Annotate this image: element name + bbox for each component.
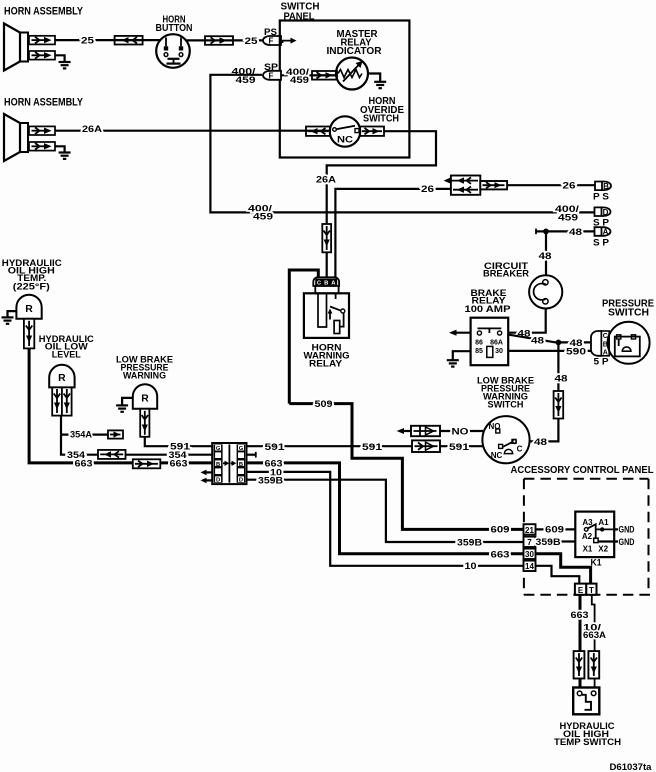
- svg-text:F: F: [269, 71, 274, 80]
- circuit breaker: [529, 275, 562, 308]
- master relay indicator lamp: [336, 58, 368, 90]
- svg-text:26A: 26A: [82, 124, 102, 135]
- svg-text:HORN ASSEMBLY: HORN ASSEMBLY: [4, 6, 84, 18]
- accessory control panel dashed border: [524, 479, 655, 595]
- svg-text:D: D: [239, 478, 243, 484]
- svg-text:B: B: [216, 462, 220, 468]
- svg-text:BREAKER: BREAKER: [483, 269, 529, 280]
- wire 25 horn1 to connector to horn button: [55, 39, 160, 41]
- connector SP A: [595, 227, 611, 236]
- svg-text:D: D: [603, 208, 609, 217]
- accessory panel pin 21: [524, 524, 536, 535]
- svg-text:A1: A1: [598, 518, 609, 527]
- wire NO with left arrow: [397, 428, 411, 434]
- svg-text:NO: NO: [452, 427, 470, 438]
- wire label 10/663A: [583, 622, 606, 640]
- horn warning relay box: [304, 293, 349, 338]
- svg-text:663: 663: [491, 549, 510, 560]
- svg-text:SWITCH: SWITCH: [608, 308, 649, 319]
- svg-text:HORN ASSEMBLY: HORN ASSEMBLY: [4, 97, 84, 109]
- ground hydraulic oil high temp: [2, 317, 14, 323]
- svg-text:590: 590: [566, 347, 586, 358]
- svg-text:ACCESSORY CONTROL PANEL: ACCESSORY CONTROL PANEL: [511, 465, 655, 476]
- horn warning relay connector C B A: [313, 277, 339, 293]
- horn assembly 1 speaker symbol: [4, 24, 28, 71]
- connector SP F: [263, 71, 281, 81]
- svg-text:R: R: [58, 373, 66, 384]
- wire label 400/459 (mid): [248, 203, 273, 222]
- connector below low brake lamp: [140, 409, 149, 437]
- svg-text:30: 30: [495, 348, 503, 355]
- horn 2 pin connector top: [29, 126, 55, 135]
- wire K1 A2 to GND: [598, 540, 618, 542]
- wire 26 horn warning relay pin A to PS B: [335, 189, 452, 278]
- svg-text:INDICATOR: INDICATOR: [327, 46, 382, 57]
- wire 48 circuit breaker to brake relay: [508, 309, 546, 333]
- svg-text:30: 30: [525, 550, 534, 559]
- svg-text:359B: 359B: [258, 476, 283, 487]
- wire label 400/459 (right): [555, 204, 579, 223]
- svg-text:591: 591: [362, 442, 383, 453]
- svg-text:609: 609: [545, 525, 564, 536]
- wire 26A horn2 to horn override switch: [55, 130, 330, 132]
- wire horn warning relay pin C left and down to 509: [289, 270, 318, 404]
- wire 591 to NC terminal: [247, 445, 500, 447]
- brake relay 100 amp box: [471, 318, 509, 366]
- svg-text:NC: NC: [491, 451, 503, 460]
- svg-text:G: G: [216, 446, 221, 452]
- relay K1 box: [575, 512, 614, 557]
- svg-text:86: 86: [475, 340, 483, 347]
- svg-text:R: R: [25, 304, 33, 315]
- wire 48 junction to pressure switch B: [558, 341, 591, 343]
- svg-text:D61037ta: D61037ta: [610, 762, 653, 772]
- svg-text:25: 25: [81, 36, 95, 47]
- wire pin 14 to E terminal: [536, 566, 580, 584]
- svg-text:F: F: [269, 37, 274, 46]
- pressure switch connector bracket C B A: [591, 331, 609, 356]
- wire 609 pin 21 to relay K1: [536, 528, 586, 530]
- svg-text:48: 48: [539, 251, 553, 262]
- connector right of horn override switch: [360, 127, 384, 136]
- hydraulic oil high temp lamp R: [16, 295, 41, 319]
- connector on 26A vertical wire: [322, 224, 331, 252]
- svg-text:GND: GND: [619, 537, 635, 548]
- wire lamp to ground (low brake): [122, 398, 133, 406]
- svg-text:459: 459: [253, 212, 273, 223]
- svg-text:C: C: [517, 444, 523, 453]
- svg-text:663A: 663A: [583, 630, 606, 641]
- svg-text:TEMP SWITCH: TEMP SWITCH: [554, 737, 621, 748]
- svg-text:X2: X2: [598, 545, 608, 554]
- low brake pressure warning lamp R: [133, 384, 157, 409]
- accessory panel pin 30: [524, 549, 536, 560]
- wire 354A branch: [61, 416, 108, 435]
- horn 2 pin connector bottom: [29, 142, 55, 151]
- wire 25 horn button to PS connector: [187, 39, 264, 41]
- svg-text:5 P: 5 P: [594, 356, 610, 367]
- svg-text:591: 591: [449, 442, 470, 453]
- svg-text:R: R: [141, 393, 149, 404]
- svg-text:359B: 359B: [536, 537, 561, 548]
- svg-text:S P: S P: [593, 237, 610, 248]
- wire brake relay 85 to ground: [453, 351, 471, 360]
- wire 48 junction down to circuit breaker: [545, 231, 547, 275]
- connector below low level lamp (double): [52, 387, 71, 415]
- svg-text:459: 459: [558, 212, 578, 223]
- svg-text:26A: 26A: [316, 175, 336, 186]
- pressure switch: [608, 322, 650, 364]
- wire 48 junction down to low brake pressure warning switch C: [518, 342, 558, 441]
- stub arrow block left row5: [201, 478, 213, 484]
- svg-text:48: 48: [555, 374, 569, 385]
- wire 663 high temp lamp to block: [29, 348, 212, 463]
- svg-text:21: 21: [525, 526, 534, 535]
- svg-text:354: 354: [67, 450, 86, 461]
- wire K1 A1 to GND: [614, 528, 618, 530]
- connector on wire 25 right: [205, 36, 233, 45]
- wire 26A horn override switch to horn warning relay pin B: [327, 131, 436, 278]
- svg-text:354A: 354A: [70, 430, 92, 441]
- accessory panel pin 7: [524, 537, 536, 548]
- horn 1 pin connector bottom: [29, 51, 55, 60]
- wire 591 low brake lamp to block: [145, 437, 212, 446]
- svg-text:609: 609: [491, 525, 510, 536]
- horn assembly 2 speaker symbol: [4, 114, 28, 161]
- connector on 663 wire: [133, 459, 161, 468]
- svg-text:NC: NC: [337, 135, 353, 146]
- terminal E box: [575, 584, 586, 595]
- inline connector block (5 rows): [212, 443, 246, 484]
- svg-text:SWITCH: SWITCH: [488, 400, 524, 411]
- ground brake relay: [447, 360, 459, 366]
- svg-text:100 AMP: 100 AMP: [465, 304, 512, 315]
- connector stub 354A: [108, 430, 123, 438]
- horn override switch NC: [330, 116, 360, 146]
- low brake pressure warning switch: [482, 416, 529, 463]
- wire 663 block to accessory panel pin 30: [247, 463, 524, 554]
- wire 663 E terminal down to temp switch: [579, 595, 582, 691]
- svg-text:K1: K1: [591, 558, 603, 569]
- ground low brake pressure warning lamp: [116, 405, 128, 411]
- svg-text:A: A: [603, 228, 609, 237]
- wire stub arrow left of brake relay: [449, 330, 471, 336]
- connector on 663 wire (bottom left): [574, 651, 585, 678]
- connector on 354 wire: [98, 450, 126, 459]
- svg-text:7: 7: [527, 538, 532, 547]
- wire 509 to accessory panel pin 21: [289, 404, 523, 530]
- connector on wire 25: [115, 36, 143, 45]
- svg-text:14: 14: [525, 562, 534, 571]
- svg-text:26: 26: [421, 184, 434, 195]
- svg-text:509: 509: [315, 399, 333, 410]
- svg-text:WARNING: WARNING: [123, 370, 166, 381]
- arrow into switch panel from PS F: [283, 38, 297, 44]
- ground master relay indicator: [374, 82, 386, 88]
- terminal T box: [586, 584, 596, 595]
- connector on 48 vertical wire: [554, 391, 564, 419]
- svg-text:X1: X1: [583, 545, 593, 554]
- connector SP D: [595, 207, 611, 216]
- svg-text:25: 25: [245, 36, 259, 47]
- wire stub horn1 bottom pin to ground: [55, 55, 65, 62]
- svg-text:SWITCH: SWITCH: [363, 113, 399, 124]
- horn button switch: [156, 34, 190, 68]
- svg-text:85: 85: [475, 348, 483, 355]
- svg-text:T: T: [589, 586, 594, 595]
- svg-text:A: A: [603, 349, 608, 356]
- svg-text:48: 48: [534, 437, 548, 448]
- svg-text:591: 591: [265, 442, 286, 453]
- svg-text:26: 26: [563, 181, 576, 192]
- svg-text:10: 10: [465, 561, 477, 572]
- svg-text:86A: 86A: [490, 340, 503, 347]
- ground horn2: [59, 153, 71, 159]
- wire 48 diagonal brake relay to junction: [508, 335, 556, 343]
- switch panel box: [280, 21, 410, 158]
- connector on 10/663A wire (bottom right): [588, 651, 599, 678]
- wire 48 stub arrow and junction to SP A: [536, 229, 595, 235]
- stub arrow block left row4: [201, 470, 213, 476]
- accessory panel pin 14: [524, 561, 536, 572]
- wire label 400/459 (switch panel): [286, 67, 309, 86]
- svg-text:P S: P S: [593, 191, 610, 202]
- svg-text:A2: A2: [582, 532, 593, 541]
- connector PS B: [595, 182, 611, 191]
- svg-text:B: B: [239, 462, 243, 468]
- horn 1 pin connector top: [29, 36, 55, 45]
- svg-text:(225°F): (225°F): [13, 282, 50, 293]
- wire 354 low level lamp to block: [61, 435, 212, 455]
- svg-text:LEVEL: LEVEL: [52, 349, 81, 360]
- svg-text:48: 48: [569, 227, 583, 238]
- svg-text:459: 459: [236, 75, 256, 86]
- connector on NO wire: [411, 426, 440, 436]
- wire pin 30 to T terminal: [536, 554, 591, 584]
- connector on 400/459 wire: [312, 71, 337, 80]
- wire NO to switch terminal: [440, 430, 496, 432]
- svg-text:459: 459: [290, 75, 309, 86]
- wire label 400/459 (outside SP F): [232, 67, 256, 86]
- wire 400/459 SP F to master relay indicator: [281, 74, 337, 76]
- svg-text:359B: 359B: [457, 537, 482, 548]
- wire lamp to ground (high temp): [8, 311, 17, 317]
- svg-text:591: 591: [170, 442, 191, 453]
- wire 400/459 from SP F down and right to SP D: [210, 75, 594, 213]
- hydraulic oil low level lamp R: [49, 365, 74, 388]
- wire 590 brake relay 30 to pressure switch A: [508, 350, 591, 352]
- wire 359B block to accessory panel pin 7: [247, 480, 524, 542]
- wire stub horn2 bottom pin to ground: [55, 146, 65, 152]
- wire 10 block to accessory panel pin 14: [247, 472, 524, 566]
- svg-text:663: 663: [571, 610, 589, 621]
- stub block right row2: [247, 452, 256, 458]
- svg-text:48: 48: [531, 335, 545, 346]
- connector left of horn override switch: [306, 127, 330, 136]
- ground horn1: [59, 62, 71, 68]
- wire master relay indicator to ground: [368, 74, 380, 82]
- wire 359B pin 7 to relay K1: [536, 540, 595, 542]
- compound connector on wire 26: [444, 176, 507, 195]
- svg-text:B: B: [603, 182, 609, 191]
- svg-text:BUTTON: BUTTON: [156, 23, 193, 34]
- svg-text:RELAY: RELAY: [309, 358, 343, 369]
- connector PS F: [263, 36, 281, 46]
- wire 10/663A T terminal down to temp switch: [592, 595, 595, 691]
- svg-text:GND: GND: [619, 525, 635, 536]
- connector on 591 wire: [412, 440, 440, 452]
- junction dot 48: [556, 340, 562, 346]
- connector below high temp lamp: [24, 319, 34, 349]
- svg-text:E: E: [578, 586, 584, 595]
- svg-text:G: G: [239, 446, 244, 452]
- hydraulic oil high temp switch box: [573, 688, 599, 715]
- svg-text:D: D: [216, 478, 220, 484]
